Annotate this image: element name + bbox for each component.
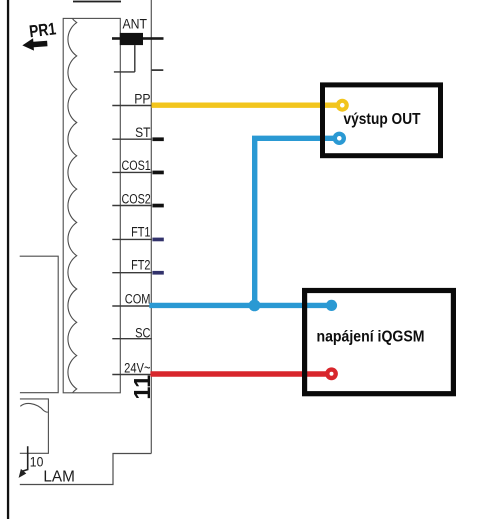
svg-text:COM: COM [125,291,151,306]
svg-text:11: 11 [129,375,155,400]
svg-text:FT2: FT2 [131,257,150,273]
svg-text:SC: SC [135,325,150,340]
svg-text:napájení iQGSM: napájení iQGSM [316,329,424,346]
svg-text:24V~: 24V~ [124,360,150,375]
svg-text:ANT: ANT [122,16,147,32]
svg-text:PR1: PR1 [28,20,57,42]
svg-text:výstup OUT: výstup OUT [344,111,421,128]
svg-text:PP: PP [134,91,150,107]
svg-text:COS1: COS1 [122,158,151,174]
svg-text:FT1: FT1 [131,224,150,240]
svg-text:COS2: COS2 [122,191,151,207]
svg-text:10: 10 [30,453,44,469]
svg-text:LAM: LAM [43,468,74,485]
svg-text:ST: ST [135,124,150,140]
